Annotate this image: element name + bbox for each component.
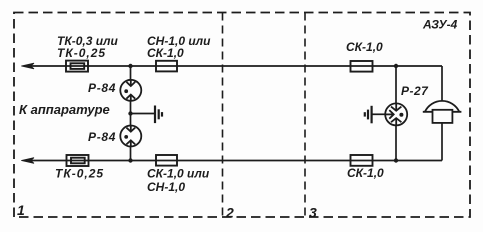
ground (station side) <box>365 106 372 124</box>
label Р-84 (lower) <box>88 130 116 144</box>
ground (line protectors) <box>155 106 162 124</box>
wire: bottom line <box>30 160 442 162</box>
svg-text:Р-84: Р-84 <box>88 81 116 95</box>
label Р-84 (upper) <box>88 81 116 95</box>
junction: bottom wire / Р-27 <box>394 158 398 162</box>
label СК-1,0 или СН-1,0 <box>147 167 210 195</box>
wire: Р-27 to bottom junction <box>395 125 397 160</box>
arrow to apparatus (top line) <box>21 63 34 69</box>
svg-text:СК-1,0 или: СК-1,0 или <box>147 167 210 181</box>
arrester Р-84 (lower) <box>120 126 141 147</box>
zone label 2 <box>225 205 234 221</box>
heat coil ТК-0,25 (bottom line) <box>67 155 89 166</box>
label Р-27 <box>401 84 429 98</box>
node: arrester midpoint <box>128 111 132 115</box>
heat coil ТК-0,3/ТК-0,25 (top line) <box>66 61 88 72</box>
label СК-1,0 (top right) <box>346 40 383 54</box>
svg-text:3: 3 <box>309 205 317 221</box>
zone divider 2/3 (dashed) <box>304 13 306 218</box>
wire: mid node to ground <box>131 113 155 115</box>
wire: top junction to Р-27 <box>395 66 397 104</box>
label К аппаратуре <box>19 102 110 117</box>
junction: top wire / arrester chain <box>128 64 132 68</box>
svg-text:Р-84: Р-84 <box>88 130 116 144</box>
wire: top line corner down to bell <box>441 66 443 102</box>
zone divider 1/2 (dashed) <box>222 13 224 218</box>
svg-text:2: 2 <box>225 205 234 221</box>
svg-text:ТК-0,25: ТК-0,25 <box>55 167 104 181</box>
svg-text:ТК-0,25: ТК-0,25 <box>57 46 106 60</box>
arrester Р-27 (three-electrode) <box>385 103 407 125</box>
svg-text:Р-27: Р-27 <box>401 84 429 98</box>
wire: Р-27 to station ground <box>372 113 385 115</box>
svg-text:1: 1 <box>17 202 25 218</box>
svg-text:СК-1,0: СК-1,0 <box>147 46 184 60</box>
junction: bottom wire / arrester chain <box>128 158 132 162</box>
label АЗУ-4 <box>422 18 458 32</box>
fuse СК-1,0 (top right) <box>351 61 373 72</box>
label СК-1,0 (bottom right) <box>347 166 384 180</box>
svg-text:СН-1,0: СН-1,0 <box>147 180 185 194</box>
wire: arrester lower to bottom junction <box>130 146 132 160</box>
label СН-1,0 или СК-1,0 <box>147 34 211 60</box>
zone label 1 <box>17 202 25 218</box>
wire: bell down to bottom line corner <box>441 123 443 161</box>
arrester Р-84 (upper) <box>120 80 141 101</box>
svg-text:СК-1,0: СК-1,0 <box>347 166 384 180</box>
zone label 3 <box>309 205 317 221</box>
wire: top junction to arrester Р-84 upper <box>130 66 132 80</box>
junction: top wire / Р-27 <box>394 64 398 68</box>
arrow to apparatus (bottom line) <box>21 158 34 164</box>
svg-text:СК-1,0: СК-1,0 <box>346 40 383 54</box>
fuse СК-1,0/СН-1,0 (bottom line) <box>156 155 177 166</box>
label ТК-0,25 <box>55 167 104 181</box>
fuse СК-1,0 (bottom right) <box>351 155 373 166</box>
wire: arrester upper to mid node <box>130 101 132 126</box>
wire: top line <box>30 65 442 67</box>
svg-text:К аппаратуре: К аппаратуре <box>19 102 110 117</box>
label ТК-0,3 или ТК-0,25 <box>57 34 119 60</box>
bell (ringer) <box>423 101 462 123</box>
fuse СН-1,0/СК-1,0 (top line) <box>156 61 177 72</box>
svg-text:АЗУ-4: АЗУ-4 <box>422 18 458 32</box>
